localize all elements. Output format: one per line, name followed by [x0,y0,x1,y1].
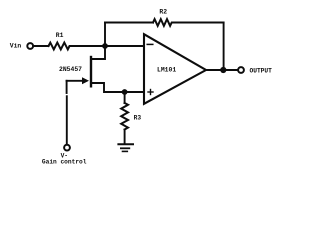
op-amp U1 LM101 triangle [144,34,206,104]
wire feedback left vertical [104,23,106,47]
svg-text:R3: R3 [134,115,142,122]
transistor Q1 source lead [92,83,125,92]
node output junction [220,67,226,73]
ground [118,143,133,145]
node B junction [122,89,128,95]
wire R3 to ground [124,130,126,144]
inverting input marker minus [147,43,153,45]
resistor R2 [153,19,173,26]
wire gate to gain control terminal upper [66,81,68,93]
wire op-amp output [206,69,238,71]
transistor Q1 2N5457 JFET channel bar [90,57,92,86]
wire gate to gain control terminal lower [66,96,68,144]
svg-text:R1: R1 [56,32,64,39]
non-inverting input marker plus [148,91,153,93]
wire feedback top right [173,22,223,24]
svg-text:LM101: LM101 [157,66,176,73]
svg-text:Gain control: Gain control [42,158,87,165]
resistor R3 [121,103,128,130]
svg-text:OUTPUT: OUTPUT [250,67,273,74]
svg-text:R2: R2 [159,8,167,15]
wire feedback right vertical [223,23,225,71]
node A junction [102,43,108,49]
terminal OUTPUT [238,67,244,73]
transistor Q1 gate lead with arrow [67,80,83,82]
transistor Q1 drain lead [92,46,106,59]
wire node B to non-inverting input [125,91,144,93]
wire feedback top left [105,22,153,24]
wire Vin to R1 [33,45,48,47]
wire R1 to inverting input [71,45,144,47]
resistor R1 [49,43,72,50]
svg-text:Vin: Vin [10,43,22,50]
svg-text:2N5457: 2N5457 [59,66,82,73]
terminal Vin [27,43,33,49]
wire node B to R3 [124,92,126,103]
terminal V- gain control [64,145,70,151]
